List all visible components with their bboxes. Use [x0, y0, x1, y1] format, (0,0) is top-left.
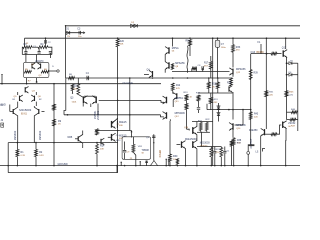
svg-text:NFB: NFB	[68, 136, 73, 139]
svg-text:R39: R39	[254, 73, 259, 75]
svg-text:Q17: Q17	[282, 48, 287, 50]
svg-text:10K: 10K	[100, 148, 104, 150]
svg-text:GND: GND	[0, 104, 6, 107]
svg-text:R12: R12	[176, 85, 181, 87]
svg-text:MPSA56: MPSA56	[175, 62, 185, 65]
svg-text:10K: 10K	[120, 44, 124, 46]
svg-text:100u: 100u	[221, 47, 227, 49]
svg-text:MPSW06: MPSW06	[175, 112, 186, 115]
svg-text:D7LED: D7LED	[160, 149, 162, 157]
svg-text:MPSA06: MPSA06	[236, 124, 246, 127]
svg-text:MPSA56: MPSA56	[236, 68, 246, 71]
svg-text:MJ15003: MJ15003	[200, 142, 211, 145]
svg-text:LS: LS	[256, 152, 259, 154]
svg-text:R38: R38	[237, 140, 242, 142]
svg-text:R10: R10	[73, 86, 78, 88]
svg-text:BD139: BD139	[257, 52, 265, 54]
svg-text:R17: R17	[204, 63, 209, 65]
svg-text:10K: 10K	[73, 88, 77, 90]
svg-text:1N5402: 1N5402	[38, 130, 42, 140]
svg-text:R43: R43	[254, 114, 259, 116]
svg-text:TR508: TR508	[142, 149, 150, 152]
svg-text:60 61: 60 61	[21, 113, 27, 115]
svg-text:MJE15030: MJE15030	[185, 138, 197, 141]
svg-text:R20: R20	[120, 40, 125, 43]
svg-text:MPSA: MPSA	[172, 47, 179, 50]
svg-text:R33: R33	[236, 46, 241, 49]
svg-text:2SC52: 2SC52	[288, 123, 296, 125]
svg-text:GROUND: GROUND	[58, 164, 69, 166]
svg-text:MJ15003: MJ15003	[19, 108, 31, 112]
svg-text:Q13: Q13	[251, 51, 256, 54]
svg-text:R24: R24	[100, 145, 105, 148]
svg-text:2N5551: 2N5551	[94, 110, 97, 119]
svg-text:R30: R30	[173, 155, 178, 158]
svg-text:2N5551: 2N5551	[175, 97, 184, 100]
svg-text:R35: R35	[227, 83, 232, 85]
svg-text:OUTPUT: OUTPUT	[250, 138, 253, 148]
svg-text:1N5402: 1N5402	[13, 130, 17, 140]
svg-text:MJE15: MJE15	[119, 121, 127, 124]
svg-text:C6 100pF: C6 100pF	[123, 82, 134, 85]
svg-text:R16: R16	[186, 41, 191, 43]
